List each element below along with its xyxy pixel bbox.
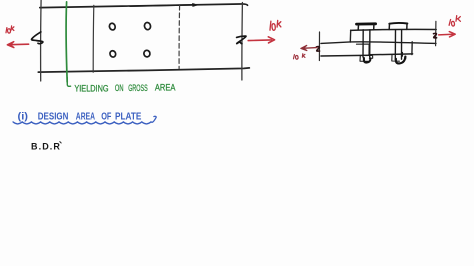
bolt B1 shank <box>363 30 370 57</box>
wire: bottom plate bottom edge left stroke <box>321 54 372 57</box>
wire: top plate left end <box>349 30 351 42</box>
label: 10k right fig right <box>449 16 460 26</box>
svg-text:(i): (i) <box>18 112 29 123</box>
svg-text:AREA: AREA <box>76 112 95 123</box>
wire: bottom plate right end <box>411 42 413 55</box>
bolt B1 thread end <box>364 58 371 63</box>
label: green yielding note <box>74 83 175 94</box>
bolt B2 head <box>389 22 407 25</box>
node: small arrow mark on top edge <box>193 3 198 6</box>
wire: plate left edge vertical <box>40 0 42 81</box>
svg-text:AREA: AREA <box>155 83 176 93</box>
node: blue wavy underline <box>13 116 156 124</box>
wire: bottom plate bottom edge right stroke <box>369 53 413 56</box>
node: green leader foot <box>67 78 70 87</box>
node: break z mark bottom plate <box>316 47 319 52</box>
wire: inner vertical at hole edge <box>368 44 370 55</box>
svg-text:OF: OF <box>101 112 111 123</box>
label: 10k right fig left <box>294 54 306 60</box>
label: 10k right of plate <box>270 20 281 30</box>
hole top-left <box>109 22 117 30</box>
wire: interface line (top plate bottom) <box>350 42 436 44</box>
node: tick after R <box>60 142 61 143</box>
svg-text:DESIGN: DESIGN <box>38 112 69 123</box>
wire: inner vertical line <box>92 5 95 72</box>
wire: top plate top edge <box>351 28 437 31</box>
wire: plate top edge <box>40 4 248 8</box>
node: break squiggle right edge <box>237 36 246 44</box>
wire: bottom plate top edge inner stroke <box>357 43 370 45</box>
wire: plate right edge vertical <box>241 3 244 81</box>
bolt B2 thread end <box>396 57 405 64</box>
wire: plate bottom edge <box>38 68 249 72</box>
node: break squiggle left edge <box>32 32 43 44</box>
svg-text:ON: ON <box>115 83 124 93</box>
arrow: right fig left 10k <box>301 45 317 50</box>
wire: dashed section line <box>178 6 181 69</box>
svg-text:YIELDING: YIELDING <box>74 84 108 94</box>
wire: bottom plate left break line <box>318 32 320 61</box>
hole bottom-left <box>109 50 117 58</box>
bolt B1 head <box>357 22 376 25</box>
wire: plate top edge second stroke <box>130 5 193 6</box>
bolt B1 nut <box>360 56 373 62</box>
hole top-right <box>144 22 152 30</box>
label: blue heading <box>18 112 142 123</box>
arrow: right 10k load <box>248 37 274 43</box>
label: 10k left <box>6 26 14 33</box>
arrow: left 10k load <box>7 42 28 48</box>
bolt B2 nut <box>392 52 406 61</box>
hole bottom-right <box>143 50 150 58</box>
arrow: right fig right 10k <box>439 32 456 37</box>
node: green yield line <box>66 2 67 82</box>
wire: bottom plate top edge <box>321 42 351 44</box>
svg-text:GROSS: GROSS <box>128 83 148 93</box>
svg-text:B.D.R: B.D.R <box>31 142 61 152</box>
bolt B2 shank <box>395 30 401 60</box>
svg-text:PLATE: PLATE <box>115 112 142 123</box>
node: break z mark top plate <box>434 33 437 37</box>
wire: top plate right break line <box>435 21 437 45</box>
